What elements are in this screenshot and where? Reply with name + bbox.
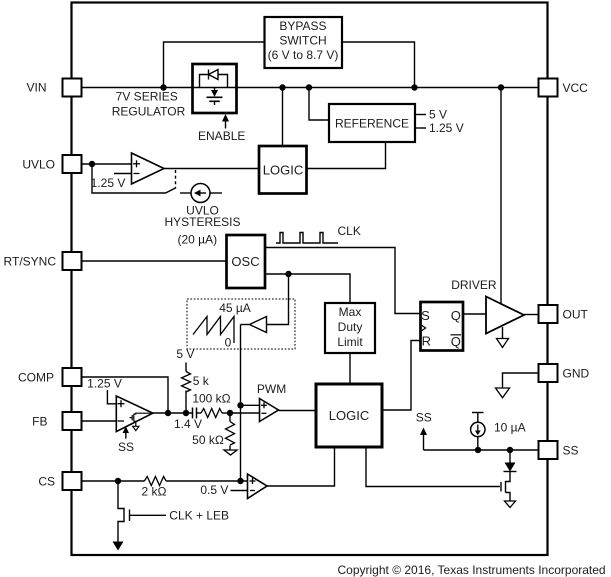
svg-text:REGULATOR: REGULATOR (112, 105, 186, 119)
svg-text:5 k: 5 k (193, 374, 210, 388)
svg-text:1.25 V: 1.25 V (429, 121, 464, 135)
svg-text:Limit: Limit (337, 335, 363, 349)
svg-text:1.4 V: 1.4 V (174, 417, 202, 431)
svg-text:CLK: CLK (338, 224, 361, 238)
svg-text:ENABLE: ENABLE (198, 129, 245, 143)
svg-text:COMP: COMP (18, 371, 54, 385)
svg-text:LOGIC: LOGIC (263, 163, 303, 178)
svg-text:50 kΩ: 50 kΩ (192, 433, 224, 447)
svg-text:2 kΩ: 2 kΩ (142, 485, 167, 499)
svg-text:SWITCH: SWITCH (279, 34, 326, 48)
svg-text:(6 V to 8.7 V): (6 V to 8.7 V) (268, 48, 339, 62)
svg-text:5 V: 5 V (429, 108, 447, 122)
svg-text:1.25 V: 1.25 V (91, 176, 126, 190)
svg-text:CS: CS (38, 475, 55, 489)
svg-text:OSC: OSC (231, 254, 259, 269)
svg-text:1.25 V: 1.25 V (87, 377, 122, 391)
svg-text:0.5 V: 0.5 V (200, 483, 228, 497)
svg-text:Q: Q (451, 308, 461, 323)
svg-text:S: S (421, 308, 430, 323)
svg-text:RT/SYNC: RT/SYNC (4, 255, 57, 269)
svg-text:VIN: VIN (26, 81, 46, 95)
svg-text:5 V: 5 V (176, 347, 194, 361)
svg-text:LOGIC: LOGIC (329, 408, 369, 423)
svg-text:45 µA: 45 µA (219, 301, 251, 315)
svg-text:UVLO: UVLO (22, 158, 55, 172)
svg-text:REFERENCE: REFERENCE (335, 117, 409, 131)
svg-text:GND: GND (563, 367, 590, 381)
svg-text:SS: SS (416, 411, 432, 425)
svg-text:Q: Q (451, 334, 461, 349)
svg-text:Duty: Duty (338, 320, 363, 334)
svg-text:0: 0 (225, 336, 232, 350)
svg-text:OUT: OUT (563, 308, 589, 322)
svg-text:BYPASS: BYPASS (279, 19, 326, 33)
svg-text:(20 µA): (20 µA) (178, 233, 218, 247)
svg-text:SS: SS (118, 440, 134, 454)
svg-text:DRIVER: DRIVER (451, 278, 497, 292)
svg-text:Max: Max (339, 305, 362, 319)
svg-text:SS: SS (563, 444, 579, 458)
svg-text:100 kΩ: 100 kΩ (192, 392, 230, 406)
svg-text:10 µA: 10 µA (494, 421, 526, 435)
svg-text:FB: FB (32, 415, 47, 429)
svg-text:HYSTERESIS: HYSTERESIS (164, 215, 240, 229)
svg-text:VCC: VCC (563, 81, 589, 95)
svg-text:R: R (422, 334, 431, 349)
svg-text:CLK + LEB: CLK + LEB (169, 509, 229, 523)
svg-text:7V SERIES: 7V SERIES (116, 90, 178, 104)
svg-text:Copyright © 2016, Texas Instru: Copyright © 2016, Texas Instruments Inco… (338, 563, 606, 577)
svg-text:PWM: PWM (257, 382, 286, 396)
